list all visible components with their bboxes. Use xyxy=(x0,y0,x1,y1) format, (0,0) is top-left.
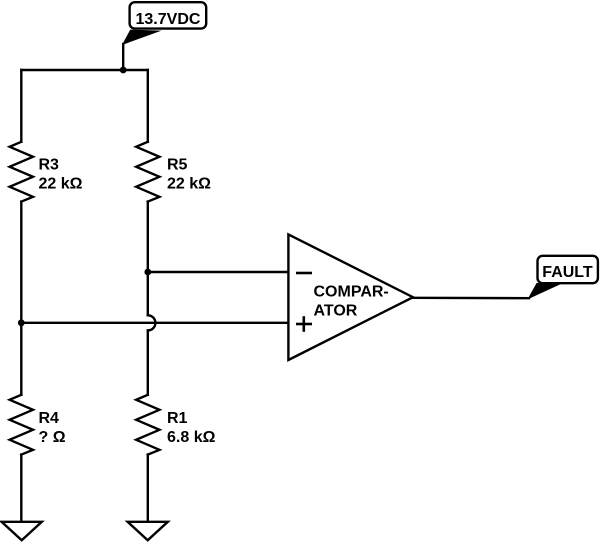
resistor R4 xyxy=(10,395,33,455)
wire comparator output xyxy=(413,297,530,300)
svg-text:ATOR: ATOR xyxy=(314,303,358,320)
ground middle xyxy=(128,522,168,540)
wire left column middle (R3 to node A) xyxy=(20,202,22,323)
node junction dot at VDC tap xyxy=(120,67,127,74)
svg-text:COMPAR-: COMPAR- xyxy=(314,284,389,301)
op-amp minus input sign xyxy=(296,272,312,275)
wire non-inverting input (node A to comparator) xyxy=(21,322,289,324)
resistor R3 label xyxy=(39,157,83,193)
wire left column to ground xyxy=(20,455,22,522)
svg-text:22 kΩ: 22 kΩ xyxy=(39,176,83,193)
net label FAULT box xyxy=(538,256,598,283)
net flag FAULT tail xyxy=(528,283,562,299)
resistor R5 label xyxy=(167,157,211,193)
wire inverting input (node B to comparator) xyxy=(148,271,289,273)
net flag 13.7VDC tail xyxy=(122,30,161,45)
svg-text:22 kΩ: 22 kΩ xyxy=(167,176,211,193)
wire hop over plus wire xyxy=(148,315,156,330)
wire middle column (node B down to hop) xyxy=(147,272,149,315)
svg-text:? Ω: ? Ω xyxy=(39,429,66,446)
resistor R1 label xyxy=(167,410,216,446)
resistor R4 label xyxy=(39,410,66,446)
wire middle column upper (bus to R5) xyxy=(147,70,149,142)
ground left xyxy=(2,522,42,540)
wire left column upper (node to R3) xyxy=(20,70,22,142)
wire 13.7VDC stem xyxy=(122,44,124,70)
svg-text:R4: R4 xyxy=(39,410,60,427)
svg-text:R1: R1 xyxy=(167,410,188,427)
op-amp plus input sign xyxy=(296,316,312,332)
svg-text:R3: R3 xyxy=(39,157,60,174)
wire middle column to ground xyxy=(147,455,149,522)
resistor R5 xyxy=(136,142,159,202)
op-amp label COMPARATOR xyxy=(314,284,389,320)
node A junction dot (left column) xyxy=(18,319,25,326)
wire left column lower (node A to R4) xyxy=(20,323,22,395)
wire middle column (R5 to node B) xyxy=(147,202,149,272)
svg-text:FAULT: FAULT xyxy=(542,264,593,281)
wire middle column (hop to R1) xyxy=(147,331,149,395)
svg-text:6.8 kΩ: 6.8 kΩ xyxy=(167,429,216,446)
resistor R1 xyxy=(136,395,159,455)
wire top horizontal bus xyxy=(21,69,148,71)
op-amp U1 comparator triangle xyxy=(288,234,413,360)
svg-text:R5: R5 xyxy=(167,157,188,174)
svg-text:13.7VDC: 13.7VDC xyxy=(136,11,201,28)
node B junction dot (middle column) xyxy=(144,269,151,276)
net label 13.7VDC box xyxy=(130,2,207,28)
resistor R3 xyxy=(10,142,33,202)
